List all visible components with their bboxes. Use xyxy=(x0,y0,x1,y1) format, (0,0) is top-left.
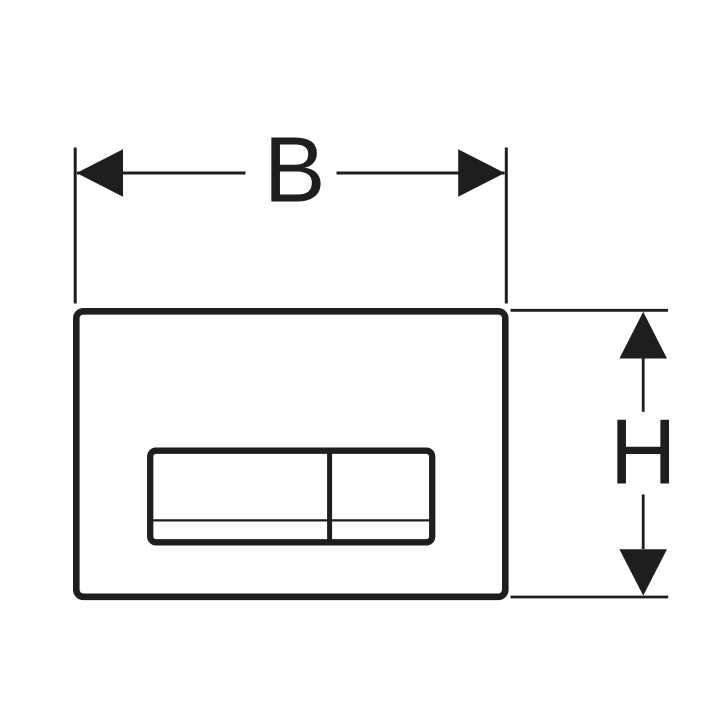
svg-text:H: H xyxy=(610,399,677,503)
svg-text:B: B xyxy=(264,118,326,222)
